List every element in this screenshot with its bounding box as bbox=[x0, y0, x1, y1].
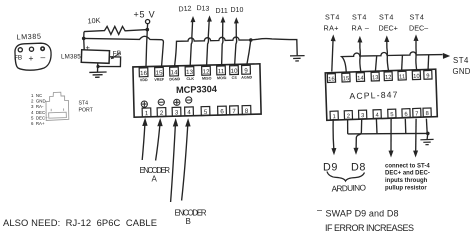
U3 bottom pin boxes 1..8 bbox=[330, 108, 431, 120]
U1 bottom pin numbers bbox=[145, 108, 249, 118]
wire pin11 to bus bbox=[401, 55, 404, 71]
svg-text:10: 10 bbox=[413, 74, 420, 80]
svg-text:15: 15 bbox=[343, 76, 350, 82]
svg-text:LM385: LM385 bbox=[61, 54, 81, 61]
svg-text:D11: D11 bbox=[216, 8, 228, 15]
svg-text:–: – bbox=[41, 52, 46, 62]
svg-text:PORT: PORT bbox=[79, 108, 94, 114]
wire cathode bus bbox=[348, 132, 428, 135]
junction node A (R1/LM385/VREF) bbox=[82, 37, 86, 41]
wire pin4 to cathode bus bbox=[375, 119, 378, 134]
svg-text:ARDUINO: ARDUINO bbox=[331, 182, 366, 193]
svg-text:2 GND: 2 GND bbox=[31, 99, 46, 104]
wire encoder A ch1 to pin1 bbox=[142, 126, 145, 161]
svg-text:6 RA+: 6 RA+ bbox=[31, 121, 45, 126]
RJ-12 jack pinout list bbox=[31, 93, 48, 126]
svg-text:ST4: ST4 bbox=[352, 13, 367, 22]
polarity mark - (pin4) bbox=[186, 97, 192, 103]
ground GND1 bbox=[89, 72, 106, 77]
ground GND2 bbox=[290, 56, 305, 61]
LM385 package body bbox=[15, 43, 51, 70]
svg-text:7: 7 bbox=[415, 111, 418, 117]
svg-text:inputs through: inputs through bbox=[385, 178, 428, 184]
wire node A down to LM385 + bbox=[83, 38, 86, 49]
svg-text:D9: D9 bbox=[323, 162, 338, 174]
wire ST4 emitter bus to ST4 GND bbox=[342, 52, 443, 72]
svg-text:LM385: LM385 bbox=[16, 32, 41, 42]
pin circle + bbox=[29, 47, 33, 51]
wire pin3 to D8 arrow (jogs left over bus) bbox=[356, 119, 362, 148]
junction +5V/R1 bbox=[146, 28, 150, 32]
svg-text:CLK: CLK bbox=[186, 77, 194, 81]
U1 top pin numbers bbox=[140, 68, 248, 78]
svg-text:+: + bbox=[29, 53, 34, 63]
svg-text:VREF: VREF bbox=[154, 78, 165, 82]
wire feedback loop bbox=[98, 57, 121, 67]
svg-text:16: 16 bbox=[140, 70, 148, 77]
svg-text:D8: D8 bbox=[351, 162, 366, 174]
svg-text:DEC–: DEC– bbox=[409, 24, 428, 33]
svg-text:A: A bbox=[152, 175, 158, 184]
junction bus/AGND bbox=[249, 38, 253, 42]
svg-text:DEC+ and DEC-: DEC+ and DEC- bbox=[385, 171, 430, 177]
svg-text:AGND: AGND bbox=[241, 75, 252, 79]
label ST4 PORT (gray) bbox=[79, 101, 94, 114]
svg-text:+5 V: +5 V bbox=[134, 10, 156, 20]
svg-text:2: 2 bbox=[347, 114, 350, 120]
svg-text:GND: GND bbox=[453, 67, 471, 76]
svg-text:MISO: MISO bbox=[202, 76, 212, 80]
wire pin16 to ST4 RA+ arrow bbox=[332, 41, 333, 72]
polarity mark + (pin1) bbox=[141, 97, 192, 107]
svg-text:6: 6 bbox=[404, 112, 407, 118]
U1 body bbox=[133, 64, 261, 117]
U3 top pin numbers bbox=[328, 73, 429, 82]
note connect to ST-4 pullup bbox=[385, 163, 430, 191]
svg-text:D13: D13 bbox=[196, 5, 209, 13]
IC U1 MCP3304 bbox=[133, 64, 261, 118]
svg-text:B: B bbox=[186, 217, 191, 226]
svg-text:D10: D10 bbox=[231, 7, 244, 14]
svg-text:IF ERROR INCREASES: IF ERROR INCREASES bbox=[325, 223, 414, 233]
svg-text:5: 5 bbox=[390, 112, 393, 118]
svg-text:DGND: DGND bbox=[169, 77, 180, 81]
svg-text:11: 11 bbox=[399, 74, 405, 80]
wire pin7 to DEC- pullup arrow bbox=[415, 119, 417, 152]
wire pin8 to cathode bus bbox=[425, 119, 428, 134]
wire LM385 - to ground bbox=[97, 63, 99, 73]
svg-text:1 NC: 1 NC bbox=[31, 93, 42, 98]
svg-text:connect to ST-4: connect to ST-4 bbox=[385, 163, 430, 169]
junction feedback/ground bbox=[96, 65, 99, 68]
wire bus to GND3 bbox=[426, 133, 429, 139]
pin circle FB bbox=[18, 48, 22, 52]
svg-text:14: 14 bbox=[171, 69, 179, 76]
polarity mark + (pin3) bbox=[174, 99, 180, 105]
IC U2 LM385 package (TO-92 bottom view) bbox=[14, 32, 51, 71]
wire +5V down to VDD pin16 bbox=[146, 24, 148, 66]
svg-text:RA –: RA – bbox=[352, 24, 370, 33]
U3 top pin boxes 16..9 bbox=[327, 70, 432, 82]
svg-text:MCP3304: MCP3304 bbox=[176, 84, 218, 95]
resistor R1 10K bbox=[84, 26, 147, 34]
wire CLK to D13 arrow bbox=[190, 21, 192, 66]
svg-text:–: – bbox=[317, 205, 322, 215]
svg-text:14: 14 bbox=[357, 76, 364, 82]
svg-text:4 DEC-: 4 DEC- bbox=[31, 110, 47, 115]
wire DGND/AGND ground bus bbox=[175, 37, 298, 66]
svg-text:D12: D12 bbox=[178, 5, 192, 13]
wire encoder A ch2 to pin2 bbox=[156, 126, 160, 161]
svg-text:ACPL-847: ACPL-847 bbox=[349, 89, 399, 101]
IC U3 ACPL-847 bbox=[325, 69, 437, 120]
wire pin5 to DEC+ pullup arrow bbox=[390, 119, 392, 151]
brace arduino pins bbox=[327, 172, 365, 182]
pin circle - bbox=[41, 47, 44, 50]
wire pin14 to ST4 RA- arrow (hops bus) bbox=[359, 42, 362, 72]
wire R1 left to node A bbox=[83, 32, 85, 39]
wire pin13 to bus bbox=[375, 56, 376, 72]
svg-text:13: 13 bbox=[372, 75, 379, 81]
wire encoder B ch1 to pin3 bbox=[171, 126, 176, 202]
svg-text:12: 12 bbox=[385, 75, 392, 81]
svg-text:RA+: RA+ bbox=[324, 24, 339, 33]
svg-text:ALSO NEED: RJ-12 6P6C CABLE: ALSO NEED: RJ-12 6P6C CABLE bbox=[3, 217, 157, 228]
svg-text:CS: CS bbox=[232, 76, 238, 80]
svg-text:3: 3 bbox=[361, 113, 364, 119]
U1 bottom pin boxes 1..8 bbox=[142, 105, 251, 116]
svg-text:8: 8 bbox=[425, 111, 428, 117]
RJ-12 jack (ST4 port) drawing bbox=[46, 92, 69, 120]
svg-text:10: 10 bbox=[231, 68, 239, 75]
arrow ST4 GND bbox=[443, 53, 450, 59]
svg-text:DEC+: DEC+ bbox=[379, 24, 398, 33]
power +5V terminal bbox=[134, 10, 156, 67]
svg-text:ST4: ST4 bbox=[410, 13, 425, 22]
svg-text:ST4: ST4 bbox=[379, 13, 394, 22]
wire pin12 to ST4 DEC+ arrow (hops bus) bbox=[387, 42, 389, 72]
U1 top pin boxes 16..9 bbox=[139, 65, 250, 77]
svg-text:13: 13 bbox=[186, 69, 194, 76]
svg-text:10K: 10K bbox=[87, 16, 101, 26]
svg-text:ST4: ST4 bbox=[453, 56, 469, 65]
svg-text:9: 9 bbox=[426, 73, 429, 79]
svg-text:FB: FB bbox=[14, 55, 22, 62]
svg-text:VDD: VDD bbox=[140, 78, 148, 82]
svg-text:ST4: ST4 bbox=[325, 13, 340, 22]
polarity mark - (pin2) bbox=[158, 99, 164, 105]
svg-text:MOSI: MOSI bbox=[217, 76, 227, 80]
U1 pin name labels bbox=[140, 75, 253, 82]
wire pin10 to ST4 DEC- arrow (hops bus) bbox=[415, 41, 418, 71]
wire node A to VREF pin15 (hops +5V wire) bbox=[84, 36, 164, 66]
svg-text:pullup resistor: pullup resistor bbox=[385, 186, 427, 192]
U3 bottom pin numbers bbox=[333, 111, 429, 120]
junction cathode bus/ground bbox=[426, 132, 430, 136]
wire pin6 to cathode bus bbox=[404, 119, 407, 134]
wire pin9 to bus bbox=[427, 55, 430, 71]
svg-text:ST4: ST4 bbox=[79, 101, 89, 107]
ground GND3 bbox=[420, 139, 433, 144]
wire encoder B ch2 to pin4 bbox=[182, 126, 188, 200]
wire MOSI to D11 arrow bbox=[222, 21, 223, 66]
svg-text:12: 12 bbox=[203, 68, 211, 75]
svg-text:3 RA-: 3 RA- bbox=[31, 104, 44, 109]
wire CS to D10 arrow bbox=[235, 22, 237, 66]
wire AGND pin9 to bus bbox=[247, 40, 251, 65]
svg-text:16: 16 bbox=[328, 77, 335, 83]
IC U2 LM385 body bbox=[81, 50, 109, 64]
wire pin1 to D9 arrow bbox=[332, 119, 335, 149]
wire MISO to D12 arrow bbox=[207, 21, 210, 66]
wire pin2 to cathode bus bbox=[347, 119, 349, 134]
svg-text:11: 11 bbox=[218, 68, 225, 75]
U3 body bbox=[325, 69, 437, 120]
svg-text:15: 15 bbox=[156, 70, 164, 77]
svg-text:5 DEC+: 5 DEC+ bbox=[31, 115, 48, 120]
svg-text:SWAP D9 and D8: SWAP D9 and D8 bbox=[326, 209, 399, 219]
